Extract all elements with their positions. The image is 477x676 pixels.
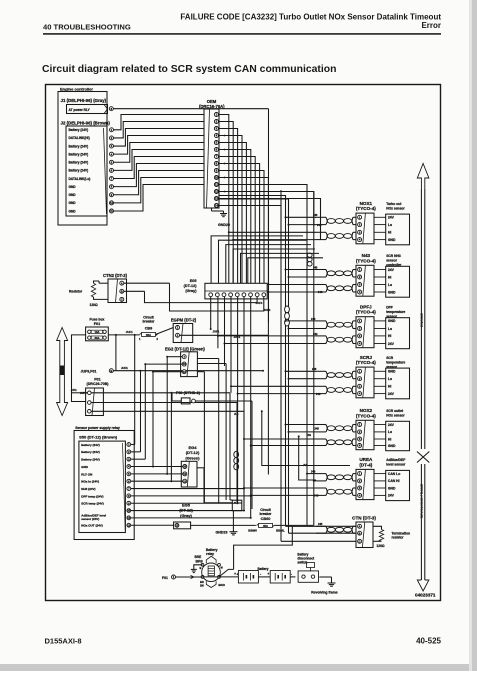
svg-text:DPF temp (24V): DPF temp (24V) xyxy=(81,494,103,498)
svg-text:CTN (DT-3): CTN (DT-3) xyxy=(352,516,376,521)
svg-text:NOX1: NOX1 xyxy=(360,201,373,206)
svg-text:sensor: sensor xyxy=(386,365,398,369)
svg-text:B: B xyxy=(121,289,123,293)
svg-text:Lo: Lo xyxy=(388,327,392,331)
svg-text:UREA: UREA xyxy=(359,457,373,462)
svg-text:ENGINE: ENGINE xyxy=(420,313,424,327)
svg-text:24G: 24G xyxy=(318,291,323,294)
svg-text:RLY ON: RLY ON xyxy=(81,472,92,476)
svg-text:(TYCO-4): (TYCO-4) xyxy=(356,413,376,418)
svg-text:45A: 45A xyxy=(263,524,269,528)
svg-text:JUF4: JUF4 xyxy=(264,308,271,312)
svg-text:Lo: Lo xyxy=(388,283,392,287)
svg-text:SCRJ: SCRJ xyxy=(360,355,373,360)
svg-text:NOX2: NOX2 xyxy=(360,408,373,413)
svg-text:J2 (DELPHI-96) (Brown): J2 (DELPHI-96) (Brown) xyxy=(61,120,111,125)
svg-text:Battery (24V): Battery (24V) xyxy=(81,458,100,462)
svg-text:controller: controller xyxy=(386,263,402,267)
svg-text:CTN2 (DT-3): CTN2 (DT-3) xyxy=(103,273,128,278)
svg-text:DATALINK(Hi): DATALINK(Hi) xyxy=(69,136,90,140)
svg-text:Turbo out: Turbo out xyxy=(386,202,402,206)
svg-text:(TYCO-4): (TYCO-4) xyxy=(356,206,376,211)
svg-text:J1 (DELPHI-96) (Gray): J1 (DELPHI-96) (Gray) xyxy=(61,98,107,103)
svg-text:GND: GND xyxy=(388,444,396,448)
svg-text:+: + xyxy=(267,572,269,576)
svg-text:120Ω: 120Ω xyxy=(90,303,99,307)
svg-text:sensor: sensor xyxy=(386,259,398,263)
svg-text:24B: 24B xyxy=(313,214,318,217)
svg-text:SCR outlet: SCR outlet xyxy=(386,409,404,413)
svg-text:NOx in (24V): NOx in (24V) xyxy=(81,480,99,484)
svg-text:(Gray): (Gray) xyxy=(185,289,197,293)
svg-text:breaker: breaker xyxy=(260,512,273,516)
svg-text:JUF1: JUF1 xyxy=(213,329,220,333)
svg-text:breaker: breaker xyxy=(143,320,156,324)
svg-text:A: A xyxy=(359,524,361,528)
svg-text:JUF4: JUF4 xyxy=(256,301,263,305)
svg-text:Battery (24V): Battery (24V) xyxy=(81,443,100,447)
svg-text:Lo: Lo xyxy=(388,377,392,381)
svg-text:EGPM (DT-2): EGPM (DT-2) xyxy=(171,318,197,323)
svg-text:resistor: resistor xyxy=(392,536,405,540)
svg-text:Hi: Hi xyxy=(388,334,391,338)
svg-text:24V: 24V xyxy=(388,268,395,272)
svg-text:CB60: CB60 xyxy=(261,517,271,521)
svg-text:Battery (24V): Battery (24V) xyxy=(69,152,89,156)
svg-text:BRE: BRE xyxy=(195,555,202,559)
svg-text:GND: GND xyxy=(388,238,396,242)
svg-text:Lo: Lo xyxy=(388,223,392,227)
svg-text:switch: switch xyxy=(297,561,307,565)
svg-text:40 TROUBLESHOOTING: 40 TROUBLESHOOTING xyxy=(43,23,131,32)
svg-text:Battery (24V): Battery (24V) xyxy=(69,161,89,165)
svg-text:GND: GND xyxy=(388,370,396,374)
svg-text:GND: GND xyxy=(388,290,396,294)
svg-text:10A: 10A xyxy=(95,330,100,334)
svg-text:EG2 (DT-12) (Green): EG2 (DT-12) (Green) xyxy=(165,346,205,351)
svg-text:B: B xyxy=(110,369,112,373)
svg-text:NOx OUT (24V): NOx OUT (24V) xyxy=(81,524,103,528)
svg-text:(DT-4): (DT-4) xyxy=(359,462,372,467)
svg-text:relay: relay xyxy=(206,552,214,556)
svg-text:Revolving frame: Revolving frame xyxy=(311,591,337,595)
svg-text:24V: 24V xyxy=(388,216,395,220)
svg-text:GND20: GND20 xyxy=(218,223,230,227)
svg-text:Battery: Battery xyxy=(258,567,269,571)
svg-text:24B: 24B xyxy=(311,318,316,321)
svg-text:F01: F01 xyxy=(94,322,101,326)
svg-text:F01: F01 xyxy=(162,576,168,580)
svg-text:24G: 24G xyxy=(317,224,322,227)
svg-text:BBM0: BBM0 xyxy=(248,529,257,533)
svg-text:Circuit diagram related to SCR: Circuit diagram related to SCR system CA… xyxy=(42,64,336,75)
svg-text:24B: 24B xyxy=(312,368,317,371)
svg-text:M: M xyxy=(221,566,223,570)
svg-text:Battery (24V): Battery (24V) xyxy=(69,144,89,148)
svg-text:GND: GND xyxy=(69,185,77,189)
svg-text:DATALINK(Lo): DATALINK(Lo) xyxy=(69,177,91,181)
svg-text:F60 (DTHD-1): F60 (DTHD-1) xyxy=(176,391,201,395)
svg-text:SCR: SCR xyxy=(386,356,394,360)
svg-text:Hi: Hi xyxy=(388,231,391,235)
svg-text:S50 (DT-12) (Brown): S50 (DT-12) (Brown) xyxy=(79,435,118,440)
svg-text:B: B xyxy=(359,531,361,535)
svg-text:BR: BR xyxy=(200,580,204,584)
svg-text:24V: 24V xyxy=(388,342,395,346)
svg-text:C: C xyxy=(121,298,123,302)
svg-text:04023371: 04023371 xyxy=(415,593,436,598)
svg-text:SCR temp (24V): SCR temp (24V) xyxy=(81,502,104,506)
svg-text:CAN Lo: CAN Lo xyxy=(388,472,400,476)
svg-text:40-525: 40-525 xyxy=(416,637,441,646)
svg-text:Hi: Hi xyxy=(388,275,391,279)
svg-text:24B: 24B xyxy=(315,427,320,430)
svg-text:sensor: sensor xyxy=(386,315,398,319)
svg-text:GND: GND xyxy=(69,193,77,197)
svg-text:24G: 24G xyxy=(313,333,318,336)
svg-text:30A: 30A xyxy=(95,336,100,340)
svg-text:B: B xyxy=(200,566,202,570)
svg-text:24B: 24B xyxy=(318,523,323,526)
svg-text:Engine controller: Engine controller xyxy=(60,87,93,92)
svg-text:GND: GND xyxy=(388,486,396,490)
svg-text:24V: 24V xyxy=(388,392,395,396)
svg-text:CB9: CB9 xyxy=(145,326,153,330)
svg-text:GND: GND xyxy=(81,465,89,469)
svg-text:BR6: BR6 xyxy=(196,560,203,564)
svg-text:(DT-12): (DT-12) xyxy=(186,450,200,455)
svg-text:GND: GND xyxy=(69,209,77,213)
svg-text:BBML: BBML xyxy=(276,529,285,533)
svg-text:SCR NH3: SCR NH3 xyxy=(386,254,401,258)
svg-text:(Green): (Green) xyxy=(185,455,200,460)
svg-text:(TYCO-4): (TYCO-4) xyxy=(356,310,376,315)
svg-text:GND23: GND23 xyxy=(216,531,228,535)
svg-text:GND: GND xyxy=(388,319,396,323)
svg-text:Battery (24V): Battery (24V) xyxy=(69,128,89,132)
svg-text:JU5: JU5 xyxy=(303,464,308,467)
svg-text:30A: 30A xyxy=(146,333,152,337)
svg-text:temperature: temperature xyxy=(386,310,405,314)
svg-text:24B: 24B xyxy=(313,266,318,269)
svg-text:24G: 24G xyxy=(314,495,319,498)
svg-text:JUF1: JUF1 xyxy=(121,366,128,370)
svg-text:(DT-12): (DT-12) xyxy=(184,284,198,288)
svg-text:NOx sensor: NOx sensor xyxy=(386,206,405,210)
svg-text:CAN Hi: CAN Hi xyxy=(388,479,400,483)
svg-text:(DT-12): (DT-12) xyxy=(179,508,193,513)
svg-text:NOx sensor: NOx sensor xyxy=(386,414,405,418)
svg-text:E05: E05 xyxy=(190,279,197,283)
svg-text:Sensor power supply relay: Sensor power supply relay xyxy=(75,426,120,430)
svg-text:24V: 24V xyxy=(388,423,395,427)
svg-text:JUF1: JUF1 xyxy=(126,330,133,334)
svg-text:Hi: Hi xyxy=(388,437,391,441)
svg-text:FAILURE CODE [CA3232] Turbo Ou: FAILURE CODE [CA3232] Turbo Outlet NOx S… xyxy=(180,13,441,22)
svg-text:Fuse box: Fuse box xyxy=(90,317,105,321)
svg-text:BRD: BRD xyxy=(218,583,225,587)
svg-text:DPF: DPF xyxy=(386,305,393,309)
svg-text:(DRC26-70B): (DRC26-70B) xyxy=(87,382,110,386)
svg-text:24G: 24G xyxy=(307,434,312,437)
svg-text:2M: 2M xyxy=(200,583,204,587)
svg-text:sensor (24V): sensor (24V) xyxy=(81,517,99,521)
svg-text:24G: 24G xyxy=(316,393,321,396)
svg-text:N43: N43 xyxy=(362,253,371,258)
svg-text:level sensor: level sensor xyxy=(386,463,406,467)
svg-text:120Ω: 120Ω xyxy=(376,544,385,548)
svg-text:temperature: temperature xyxy=(386,360,405,364)
svg-text:(Gray): (Gray) xyxy=(180,513,192,518)
svg-text:(TYCO-4): (TYCO-4) xyxy=(356,258,376,263)
svg-text:+: + xyxy=(234,572,236,576)
svg-text:Resistor: Resistor xyxy=(69,290,83,294)
svg-text:24B: 24B xyxy=(311,471,316,474)
svg-text:C: C xyxy=(359,539,361,543)
svg-text:AdBlue/DEF: AdBlue/DEF xyxy=(386,458,405,462)
svg-text:F01: F01 xyxy=(94,377,101,381)
svg-text:(DRC16-70A): (DRC16-70A) xyxy=(199,104,225,109)
svg-text:D155AXI-8: D155AXI-8 xyxy=(45,637,82,646)
svg-text:JUF3,F01: JUF3,F01 xyxy=(81,369,97,373)
svg-text:GND: GND xyxy=(69,201,77,205)
svg-text:AT power RLY: AT power RLY xyxy=(69,108,91,112)
svg-text:Hi: Hi xyxy=(388,385,391,389)
svg-text:Lo: Lo xyxy=(388,430,392,434)
svg-text:A: A xyxy=(121,281,123,285)
svg-text:24V: 24V xyxy=(388,494,395,498)
svg-text:REVOLVING FRAME: REVOLVING FRAME xyxy=(420,483,424,518)
svg-text:Battery (24V): Battery (24V) xyxy=(81,450,100,454)
svg-text:DPFJ: DPFJ xyxy=(360,304,372,309)
svg-text:(TYCO-4): (TYCO-4) xyxy=(356,360,376,365)
svg-text:Error: Error xyxy=(421,21,441,30)
svg-text:NH3 (24V): NH3 (24V) xyxy=(81,487,95,491)
svg-text:Battery (24V): Battery (24V) xyxy=(69,169,89,173)
